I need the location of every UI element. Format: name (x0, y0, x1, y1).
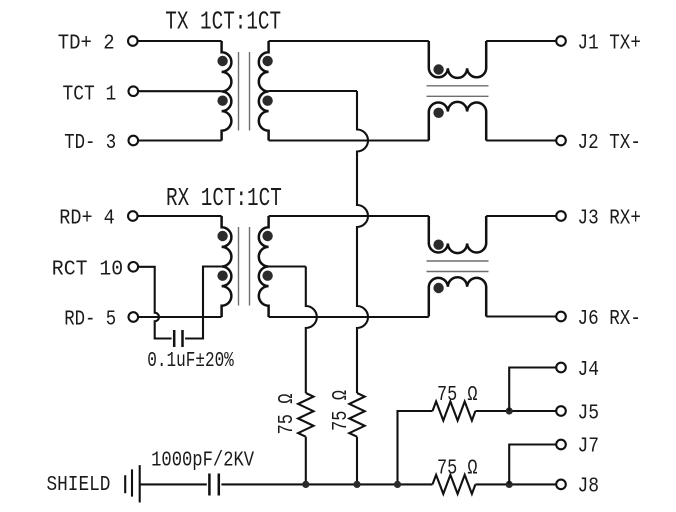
junction node R1/bus (302, 481, 309, 488)
svg-text:J7: J7 (578, 436, 600, 459)
svg-text:J2 TX-: J2 TX- (578, 132, 641, 155)
terminal RD+ (128, 211, 138, 221)
polarity dot L2 B (433, 283, 443, 293)
terminal J7 (556, 440, 566, 450)
wire node to J4 (509, 368, 556, 412)
junction node J4/J5 (506, 407, 513, 414)
terminal J1 (556, 36, 566, 46)
svg-text:75 Ω: 75 Ω (437, 457, 478, 480)
terminal TD- (129, 136, 139, 146)
polarity dot L1 A (433, 64, 443, 74)
capacitor C1 plates (174, 330, 182, 347)
svg-text:SHIELD: SHIELD (47, 474, 111, 497)
svg-text:TCT 1: TCT 1 (63, 83, 117, 106)
wire shield to C2 (140, 483, 207, 485)
transformer T1 primary winding (222, 41, 232, 141)
core T1 (239, 52, 250, 131)
svg-text:0.1uF±20%: 0.1uF±20% (147, 350, 234, 373)
svg-text:1000pF/2KV: 1000pF/2KV (151, 450, 254, 473)
wire T2 secondary top to choke L2 (269, 215, 429, 217)
resistor R3 75ohm horizontal (433, 402, 476, 421)
terminal RCT (129, 262, 139, 272)
terminal J3 (556, 211, 566, 221)
capacitor C2 plates (209, 474, 218, 496)
net from T1 center tap: vertical with hops, down to R2 (357, 91, 368, 393)
svg-text:RCT 10: RCT 10 (52, 259, 123, 282)
wire T2 secondary center tap to node (269, 265, 306, 267)
net from T2 center tap: vertical with hop, down to R1 (306, 267, 317, 394)
resistor R2 75ohm vertical (349, 393, 364, 437)
polarity dot T2 primary top (217, 231, 227, 241)
terminal TCT (129, 86, 139, 96)
wire T1 secondary center tap to node (269, 90, 357, 92)
polarity dot T2 primary lower (217, 271, 227, 281)
terminal J4 (556, 363, 566, 373)
transformer T1 secondary winding (259, 41, 269, 141)
terminal J6 (556, 312, 566, 322)
wire TD- to T1 (138, 139, 222, 141)
terminal J5 (556, 406, 566, 416)
junction node J7/J8 (506, 481, 513, 488)
wire R4 to J8 (475, 483, 556, 485)
junction node R2/bus (353, 481, 360, 488)
terminal J8 (556, 480, 566, 490)
svg-text:TD+ 2: TD+ 2 (58, 32, 115, 55)
polarity dot L1 B (433, 108, 443, 118)
chassis shield symbol (125, 465, 140, 502)
polarity dot T1 primary lower (217, 96, 227, 106)
wire T2 secondary bottom to choke L2 (269, 316, 429, 318)
polarity dot T1 primary top (217, 56, 227, 66)
transformer T2 secondary winding (259, 216, 269, 317)
terminal J2 (556, 136, 566, 146)
wire TCT to T1 center tap (138, 90, 222, 92)
choke L1 winding A (429, 41, 486, 78)
wire TD+ to T1 (138, 40, 222, 42)
transformer T2 primary winding (222, 216, 232, 317)
wire T1 secondary bottom to choke L1 (269, 139, 429, 141)
wire L1 to J1 (486, 40, 556, 42)
polarity dot T2 secondary top (262, 231, 272, 241)
wire node to J7 (509, 445, 556, 485)
svg-text:RD- 5: RD- 5 (64, 308, 116, 331)
terminal RD- (129, 312, 139, 322)
wire T1 secondary top to choke L1 (269, 40, 429, 42)
svg-text:TX 1CT:1CT: TX 1CT:1CT (165, 7, 281, 37)
svg-text:J3 RX+: J3 RX+ (578, 207, 641, 230)
svg-text:J5: J5 (578, 402, 600, 425)
svg-text:J6 RX-: J6 RX- (578, 308, 641, 331)
svg-text:RX 1CT:1CT: RX 1CT:1CT (166, 183, 282, 213)
svg-text:TD- 3: TD- 3 (64, 132, 116, 155)
choke L1 winding B (429, 102, 486, 141)
svg-text:75 Ω: 75 Ω (330, 390, 353, 431)
core L1 (427, 86, 489, 97)
svg-text:RD+ 4: RD+ 4 (59, 207, 114, 230)
polarity dot T1 secondary top (262, 56, 272, 66)
wire L2 to J3 (486, 215, 556, 217)
wire R3 to J5 (475, 410, 556, 412)
wire RD+ to T2 (138, 215, 222, 217)
wire RCT branch: right, down with hop over RD- wire, to capacitor level (138, 267, 172, 339)
wire R1 to bus (305, 437, 307, 485)
core T2 (239, 227, 250, 306)
svg-text:J8: J8 (578, 475, 600, 498)
choke L2 winding B (429, 277, 486, 316)
svg-text:J1 TX+: J1 TX+ (578, 32, 641, 55)
resistor R1 75ohm vertical (298, 393, 313, 437)
resistor R4 75ohm horizontal (433, 475, 476, 494)
ground bus wire (221, 483, 432, 485)
wire L2 to J6 (486, 315, 556, 317)
svg-text:75 Ω: 75 Ω (276, 394, 299, 435)
terminal TD+ (128, 36, 138, 46)
polarity dot T2 secondary lower (262, 271, 272, 281)
polarity dot L2 A (433, 240, 443, 250)
wire C1 to riser (185, 267, 222, 339)
svg-text:J4: J4 (578, 359, 600, 382)
wire RD- to T2 (138, 316, 222, 318)
svg-text:75 Ω: 75 Ω (437, 384, 478, 407)
junction node riser/bus (394, 481, 401, 488)
polarity dot T1 secondary lower (262, 96, 272, 106)
choke L2 winding A (429, 216, 486, 253)
core L2 (427, 261, 489, 272)
wire L1 to J2 (486, 139, 556, 141)
wire bus riser to R3 (398, 411, 433, 484)
wire R2 to bus (356, 437, 358, 485)
